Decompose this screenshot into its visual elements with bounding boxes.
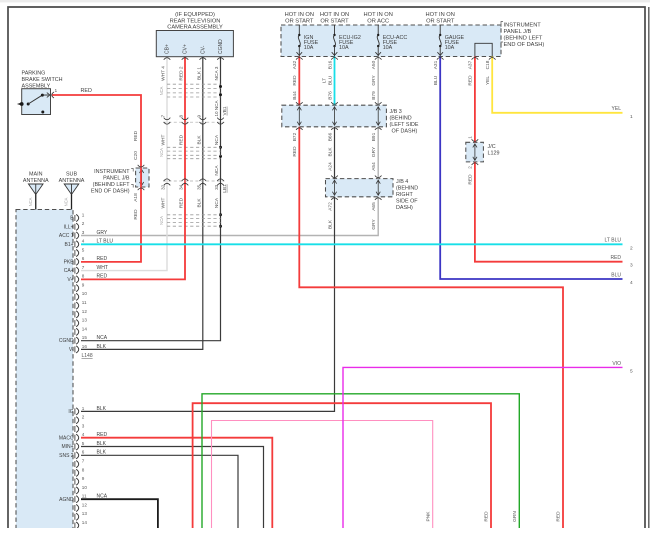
wire PNK off-page loop (212, 421, 433, 529)
svg-text:PANEL J/B: PANEL J/B (103, 176, 130, 182)
svg-text:PANEL J/B: PANEL J/B (504, 29, 532, 35)
svg-text:9: 9 (196, 114, 201, 117)
svg-text:IG: IG (68, 409, 73, 415)
svg-text:YEL: YEL (485, 76, 491, 85)
svg-text:(BEHIND: (BEHIND (396, 186, 418, 192)
svg-text:10A: 10A (445, 45, 455, 51)
wire WHT: camera CB+ to radio pin 7 CA+ (81, 57, 167, 271)
svg-text:A37: A37 (468, 60, 474, 69)
svg-text:RED: RED (556, 511, 562, 522)
svg-text:11: 11 (82, 494, 87, 499)
svg-text:AGND: AGND (59, 497, 74, 503)
svg-text:BLU: BLU (327, 75, 333, 85)
svg-text:13: 13 (82, 511, 88, 516)
svg-text:(BEHIND LEFT: (BEHIND LEFT (93, 182, 131, 188)
svg-text:A31: A31 (433, 60, 439, 69)
wire RED: radio pin 4 MACC down off page (81, 438, 272, 528)
labels wire ECU-ACC GRY (371, 60, 377, 229)
svg-text:B79: B79 (371, 91, 377, 100)
svg-text:DASH): DASH) (396, 205, 413, 211)
svg-text:J/B 3: J/B 3 (390, 109, 402, 115)
svg-text:GRY: GRY (371, 75, 377, 86)
svg-text:RED: RED (292, 146, 298, 157)
svg-text:INSTRUMENT: INSTRUMENT (504, 23, 542, 29)
feed label HOT IN ON (426, 12, 455, 24)
wire BLK: camera CV- to radio pin 16 V- (81, 57, 203, 349)
wire BLK: radio pin5 MIN+ down off page (81, 447, 264, 529)
wire LT BLU: ECU-IG2 fuse to J/B3 (334, 57, 336, 106)
svg-text:ASSEMBLY: ASSEMBLY (22, 83, 51, 89)
feed label HOT IN ON (364, 12, 393, 24)
svg-text:NCA: NCA (64, 197, 69, 206)
svg-text:12: 12 (82, 502, 88, 507)
svg-text:CA+: CA+ (64, 268, 74, 274)
svg-text:ANTENNA: ANTENNA (59, 178, 85, 184)
svg-text:PNK: PNK (425, 511, 431, 522)
svg-text:A72: A72 (327, 202, 333, 211)
svg-text:10A: 10A (304, 45, 314, 51)
caption J/B 4 (396, 179, 418, 211)
svg-text:RED: RED (610, 255, 621, 261)
wire RED off-page loop bottom left to bottom right (193, 403, 491, 528)
svg-text:13: 13 (82, 318, 88, 323)
svg-text:VB1: VB1 (222, 106, 228, 115)
wire LT BLU: radio pin 4 B1+ to right edge terminal 2 (81, 243, 623, 245)
svg-text:B66: B66 (327, 132, 333, 141)
svg-text:NCA: NCA (214, 134, 220, 145)
svg-text:INSTRUMENT: INSTRUMENT (94, 169, 130, 175)
instrument panel J/B fuse box (281, 25, 501, 57)
svg-text:RED: RED (97, 256, 108, 262)
svg-text:SUB: SUB (66, 172, 77, 178)
J/B3 edge terminals (296, 102, 382, 130)
svg-text:BLK: BLK (97, 441, 107, 447)
caption instrument panel J/B small (91, 169, 133, 195)
connector L148 wire color labels (97, 230, 114, 350)
svg-text:V-: V- (69, 347, 74, 353)
svg-text:(LEFT SIDE: (LEFT SIDE (390, 122, 419, 128)
svg-text:LT BLU: LT BLU (97, 239, 114, 245)
svg-text:4: 4 (630, 280, 633, 286)
svg-text:1: 1 (82, 212, 85, 217)
svg-text:CGND: CGND (218, 39, 224, 54)
svg-text:HOT IN ON: HOT IN ON (285, 12, 314, 18)
svg-text:35: 35 (196, 184, 201, 190)
wire RED: IGN fuse via J/B3 down and right off page (299, 57, 563, 529)
svg-text:(BEHIND: (BEHIND (390, 116, 412, 122)
off-page terminal 5 VIO (612, 361, 633, 375)
svg-text:5: 5 (82, 247, 85, 252)
camera harness wire labels (159, 66, 220, 225)
off-page terminal 4 BLU (611, 272, 633, 286)
labels wire IGN RED (292, 60, 298, 156)
svg-text:7: 7 (82, 265, 85, 270)
svg-text:MAIN: MAIN (29, 172, 43, 178)
in-line connector LB1 pins 32 34 35 33 (161, 179, 228, 193)
svg-text:BLK: BLK (327, 147, 333, 157)
junction connector J/C L129 box (466, 142, 484, 162)
svg-text:ANTENNA: ANTENNA (23, 178, 49, 184)
svg-text:NCA: NCA (214, 197, 220, 208)
svg-text:OR START: OR START (426, 18, 455, 24)
svg-text:BLK 1: BLK 1 (196, 67, 202, 80)
svg-text:HOT IN ON: HOT IN ON (426, 12, 455, 18)
svg-text:7: 7 (161, 114, 166, 117)
wire RED: parking brake switch via IP J/B to radio pin 6 PKB (52, 95, 142, 262)
svg-text:C18: C18 (485, 60, 491, 69)
svg-text:RIGHT: RIGHT (396, 192, 413, 198)
svg-text:BLK: BLK (196, 135, 202, 145)
fuse GAUGE 10A (437, 25, 464, 57)
svg-text:YEL: YEL (612, 106, 622, 112)
radio lower connector pins (59, 406, 87, 529)
svg-text:WHT: WHT (161, 197, 167, 208)
wire VIO from bottom to right edge terminal 5 (343, 367, 623, 528)
svg-text:HOT IN ON: HOT IN ON (320, 12, 349, 18)
camera box exit terminals pins 4 2 1 3 (164, 58, 224, 60)
svg-text:RED: RED (133, 209, 139, 220)
svg-text:RED: RED (468, 75, 474, 86)
svg-text:14: 14 (82, 520, 88, 525)
svg-text:J/C: J/C (488, 144, 496, 150)
svg-text:(IF EQUIPPED): (IF EQUIPPED) (175, 12, 215, 18)
caption rear television camera assembly (167, 12, 223, 31)
svg-text:3: 3 (82, 230, 85, 235)
wire BLK: ECU-IG2 fuse via J/B3+J/B4 to radio pin 1 IG (black section) (81, 127, 335, 412)
svg-text:RED: RED (81, 88, 92, 94)
svg-text:1: 1 (82, 406, 85, 411)
svg-text:GRN: GRN (512, 511, 518, 522)
svg-text:8: 8 (179, 114, 184, 117)
svg-text:CV-: CV- (200, 45, 206, 54)
svg-text:B72: B72 (292, 132, 298, 141)
wire YEL: fuse box C18 to right edge terminal 1 (492, 57, 622, 113)
svg-text:VIO: VIO (612, 361, 621, 367)
svg-text:A65: A65 (371, 202, 377, 211)
svg-text:C20: C20 (133, 151, 139, 160)
labels parking brake wire (81, 88, 139, 220)
svg-text:A50: A50 (371, 60, 377, 69)
svg-text:OR START: OR START (285, 18, 314, 24)
caption J/C L129 (488, 144, 500, 157)
svg-text:9: 9 (82, 282, 85, 287)
svg-text:1: 1 (468, 136, 473, 139)
svg-text:33: 33 (214, 184, 219, 190)
svg-text:NCA: NCA (97, 335, 108, 341)
svg-text:MACC: MACC (59, 435, 74, 441)
svg-text:WHT: WHT (97, 265, 108, 271)
feed label HOT IN ON (285, 12, 314, 24)
caption instrument panel J/B right of fuse box (501, 22, 544, 49)
svg-text:7: 7 (82, 458, 85, 463)
rear television camera assembly box (156, 31, 233, 57)
svg-text:9: 9 (82, 476, 85, 481)
labels wire A37 RED (468, 60, 474, 184)
svg-text:PKB: PKB (64, 259, 75, 265)
svg-text:12: 12 (82, 309, 88, 314)
svg-text:GRY: GRY (371, 146, 377, 157)
svg-text:2: 2 (630, 245, 633, 251)
svg-text:RED: RED (97, 274, 108, 280)
svg-text:J/B 4: J/B 4 (396, 179, 408, 185)
svg-text:6: 6 (82, 256, 85, 261)
svg-text:OF DASH): OF DASH) (392, 129, 418, 135)
labels wire ECU-IG2 (321, 60, 333, 229)
svg-text:2: 2 (82, 415, 85, 420)
svg-text:OR ACC: OR ACC (367, 18, 389, 24)
svg-text:LT BLU: LT BLU (605, 238, 622, 244)
sub antenna (59, 172, 85, 210)
svg-text:L129: L129 (488, 151, 500, 157)
svg-text:GRY: GRY (371, 219, 377, 230)
shield dash bands on camera harness (167, 84, 221, 226)
svg-text:OR START: OR START (320, 18, 349, 24)
wire NCA: radio pin11 AGND down off page (81, 499, 158, 528)
svg-text:V+: V+ (67, 277, 73, 283)
svg-text:1: 1 (55, 88, 58, 94)
svg-text:L148: L148 (82, 353, 93, 359)
J/B4 edge terminals (331, 176, 381, 200)
svg-text:4: 4 (82, 239, 85, 244)
svg-text:BLK: BLK (97, 406, 107, 412)
svg-text:16: 16 (82, 344, 88, 349)
svg-text:NCA: NCA (159, 86, 164, 95)
svg-text:3: 3 (630, 263, 633, 269)
svg-text:BLK: BLK (196, 198, 202, 208)
svg-text:5: 5 (630, 368, 633, 374)
svg-text:BLK: BLK (327, 219, 333, 229)
svg-text:NCA: NCA (97, 494, 108, 500)
fuse IGN 10A (297, 25, 319, 57)
parking brake switch assembly box (22, 89, 51, 115)
svg-text:B44: B44 (292, 91, 298, 100)
feed label HOT IN ON (320, 12, 349, 24)
svg-text:B91: B91 (371, 132, 377, 141)
off-page terminal 3 RED (610, 255, 633, 269)
svg-text:4: 4 (82, 432, 85, 437)
svg-text:3: 3 (82, 423, 85, 428)
svg-text:REAR TELEVISION: REAR TELEVISION (170, 18, 221, 24)
svg-text:11: 11 (82, 300, 87, 305)
svg-text:8: 8 (82, 467, 85, 472)
svg-text:RED 2: RED 2 (179, 66, 185, 80)
wire RED: fuse box A37 via J/C L129 to right edge terminal 3 (475, 57, 623, 262)
in-line connector VB1 pins 7 8 9 10 (161, 100, 228, 125)
svg-text:RED: RED (468, 174, 474, 185)
svg-text:A32: A32 (292, 60, 298, 69)
svg-text:END OF DASH): END OF DASH) (91, 189, 130, 195)
svg-text:ILL+: ILL+ (64, 224, 74, 230)
svg-text:GRY: GRY (97, 230, 108, 236)
svg-text:1: 1 (630, 114, 633, 120)
radio receiver unit box (16, 210, 73, 533)
svg-text:NCA 3: NCA 3 (214, 66, 220, 80)
svg-text:B1+: B1+ (65, 242, 74, 248)
svg-text:END OF DASH): END OF DASH) (504, 42, 545, 48)
svg-text:BLK: BLK (97, 450, 107, 456)
svg-text:MIN+: MIN+ (62, 444, 74, 450)
svg-text:32: 32 (161, 184, 166, 190)
svg-text:NCA: NCA (28, 197, 33, 206)
svg-text:BLU: BLU (611, 272, 621, 278)
svg-text:15: 15 (82, 335, 88, 340)
svg-text:5: 5 (82, 441, 85, 446)
svg-text:10: 10 (82, 485, 88, 490)
off-page terminal 1 YEL (612, 106, 633, 120)
fuse box exit terminals (296, 58, 496, 60)
svg-text:NCA: NCA (159, 216, 164, 225)
svg-text:NCA: NCA (159, 148, 164, 157)
svg-text:10A: 10A (339, 45, 349, 51)
svg-text:8: 8 (82, 274, 85, 279)
parking brake switch contacts (17, 88, 58, 113)
svg-text:LB1: LB1 (222, 184, 228, 193)
J/B 3 box (282, 105, 387, 127)
IP J/B small box edge terminals (138, 165, 145, 190)
svg-text:WHT: WHT (161, 134, 167, 145)
svg-text:RED: RED (179, 134, 185, 145)
wire BLU: GAUGE fuse to right edge terminal 4 (440, 57, 622, 280)
svg-text:14: 14 (82, 326, 88, 331)
radio connector L148 pins (59, 212, 93, 359)
svg-text:HOT IN ON: HOT IN ON (364, 12, 393, 18)
svg-text:(BEHIND LEFT: (BEHIND LEFT (504, 36, 543, 42)
wire RED: camera CV+ to radio pin 8 V+ (81, 57, 185, 279)
wire BLK: radio pin6 SNS2 down off page (81, 455, 238, 528)
svg-text:A54: A54 (371, 162, 377, 171)
svg-text:CAMERA ASSEMBLY: CAMERA ASSEMBLY (167, 25, 223, 31)
svg-text:B16: B16 (327, 60, 333, 69)
labels bottom wire tails (425, 511, 561, 522)
svg-text:RED: RED (484, 511, 490, 522)
svg-text:RED: RED (97, 432, 108, 438)
svg-text:CGND: CGND (59, 338, 74, 344)
labels wire GAUGE BLU (433, 60, 439, 85)
svg-text:BLU: BLU (433, 75, 439, 85)
svg-text:WHT 4: WHT 4 (161, 66, 167, 81)
svg-text:6: 6 (82, 450, 85, 455)
off-page terminal 2 LT BLU (605, 238, 634, 252)
svg-text:CB+: CB+ (165, 44, 171, 54)
caption J/B 3 (390, 109, 419, 135)
labels wire C18 YEL (485, 60, 491, 85)
svg-text:ACC 1: ACC 1 (59, 233, 74, 239)
bus bar for A37/C18 terminals (475, 43, 492, 56)
J/B 4 box (326, 179, 394, 197)
svg-text:10 NCA: 10 NCA (214, 100, 219, 117)
fuse ECU-ACC 10A (375, 25, 407, 57)
svg-text:RED: RED (133, 130, 139, 141)
svg-text:SIDE OF: SIDE OF (396, 199, 418, 205)
svg-text:34: 34 (179, 184, 184, 190)
instrument panel J/B (small, left) box (136, 168, 149, 187)
wire GRY: ECU-ACC fuse to radio pin 3 ACC1 (81, 57, 378, 236)
caption parking brake switch assembly (22, 71, 63, 90)
svg-text:10: 10 (82, 291, 88, 296)
svg-text:PARKING: PARKING (22, 71, 46, 77)
svg-text:2: 2 (82, 221, 85, 226)
svg-text:A18: A18 (133, 193, 139, 202)
svg-text:A24: A24 (327, 162, 333, 171)
svg-text:CV+: CV+ (183, 44, 189, 54)
svg-text:10A: 10A (383, 45, 393, 51)
svg-text:B76: B76 (327, 91, 333, 100)
svg-text:RED: RED (292, 75, 298, 86)
svg-text:BLK: BLK (97, 344, 107, 350)
svg-text:BRAKE SWITCH: BRAKE SWITCH (22, 77, 63, 83)
J/C L129 edge terminals (472, 139, 479, 165)
fuse ECU-IG2 10A (332, 25, 361, 57)
wire GRN off-page loop (202, 394, 519, 528)
svg-text:RED: RED (179, 197, 185, 208)
svg-text:LT: LT (321, 78, 327, 83)
svg-text:SNS 2: SNS 2 (59, 453, 74, 459)
lower connector wire color labels (97, 406, 108, 500)
main antenna (23, 172, 49, 210)
wire NCA shield: camera CGND to radio pin 15 CGND (81, 57, 222, 341)
svg-text:NCA: NCA (214, 165, 220, 176)
svg-text:2: 2 (468, 166, 473, 169)
